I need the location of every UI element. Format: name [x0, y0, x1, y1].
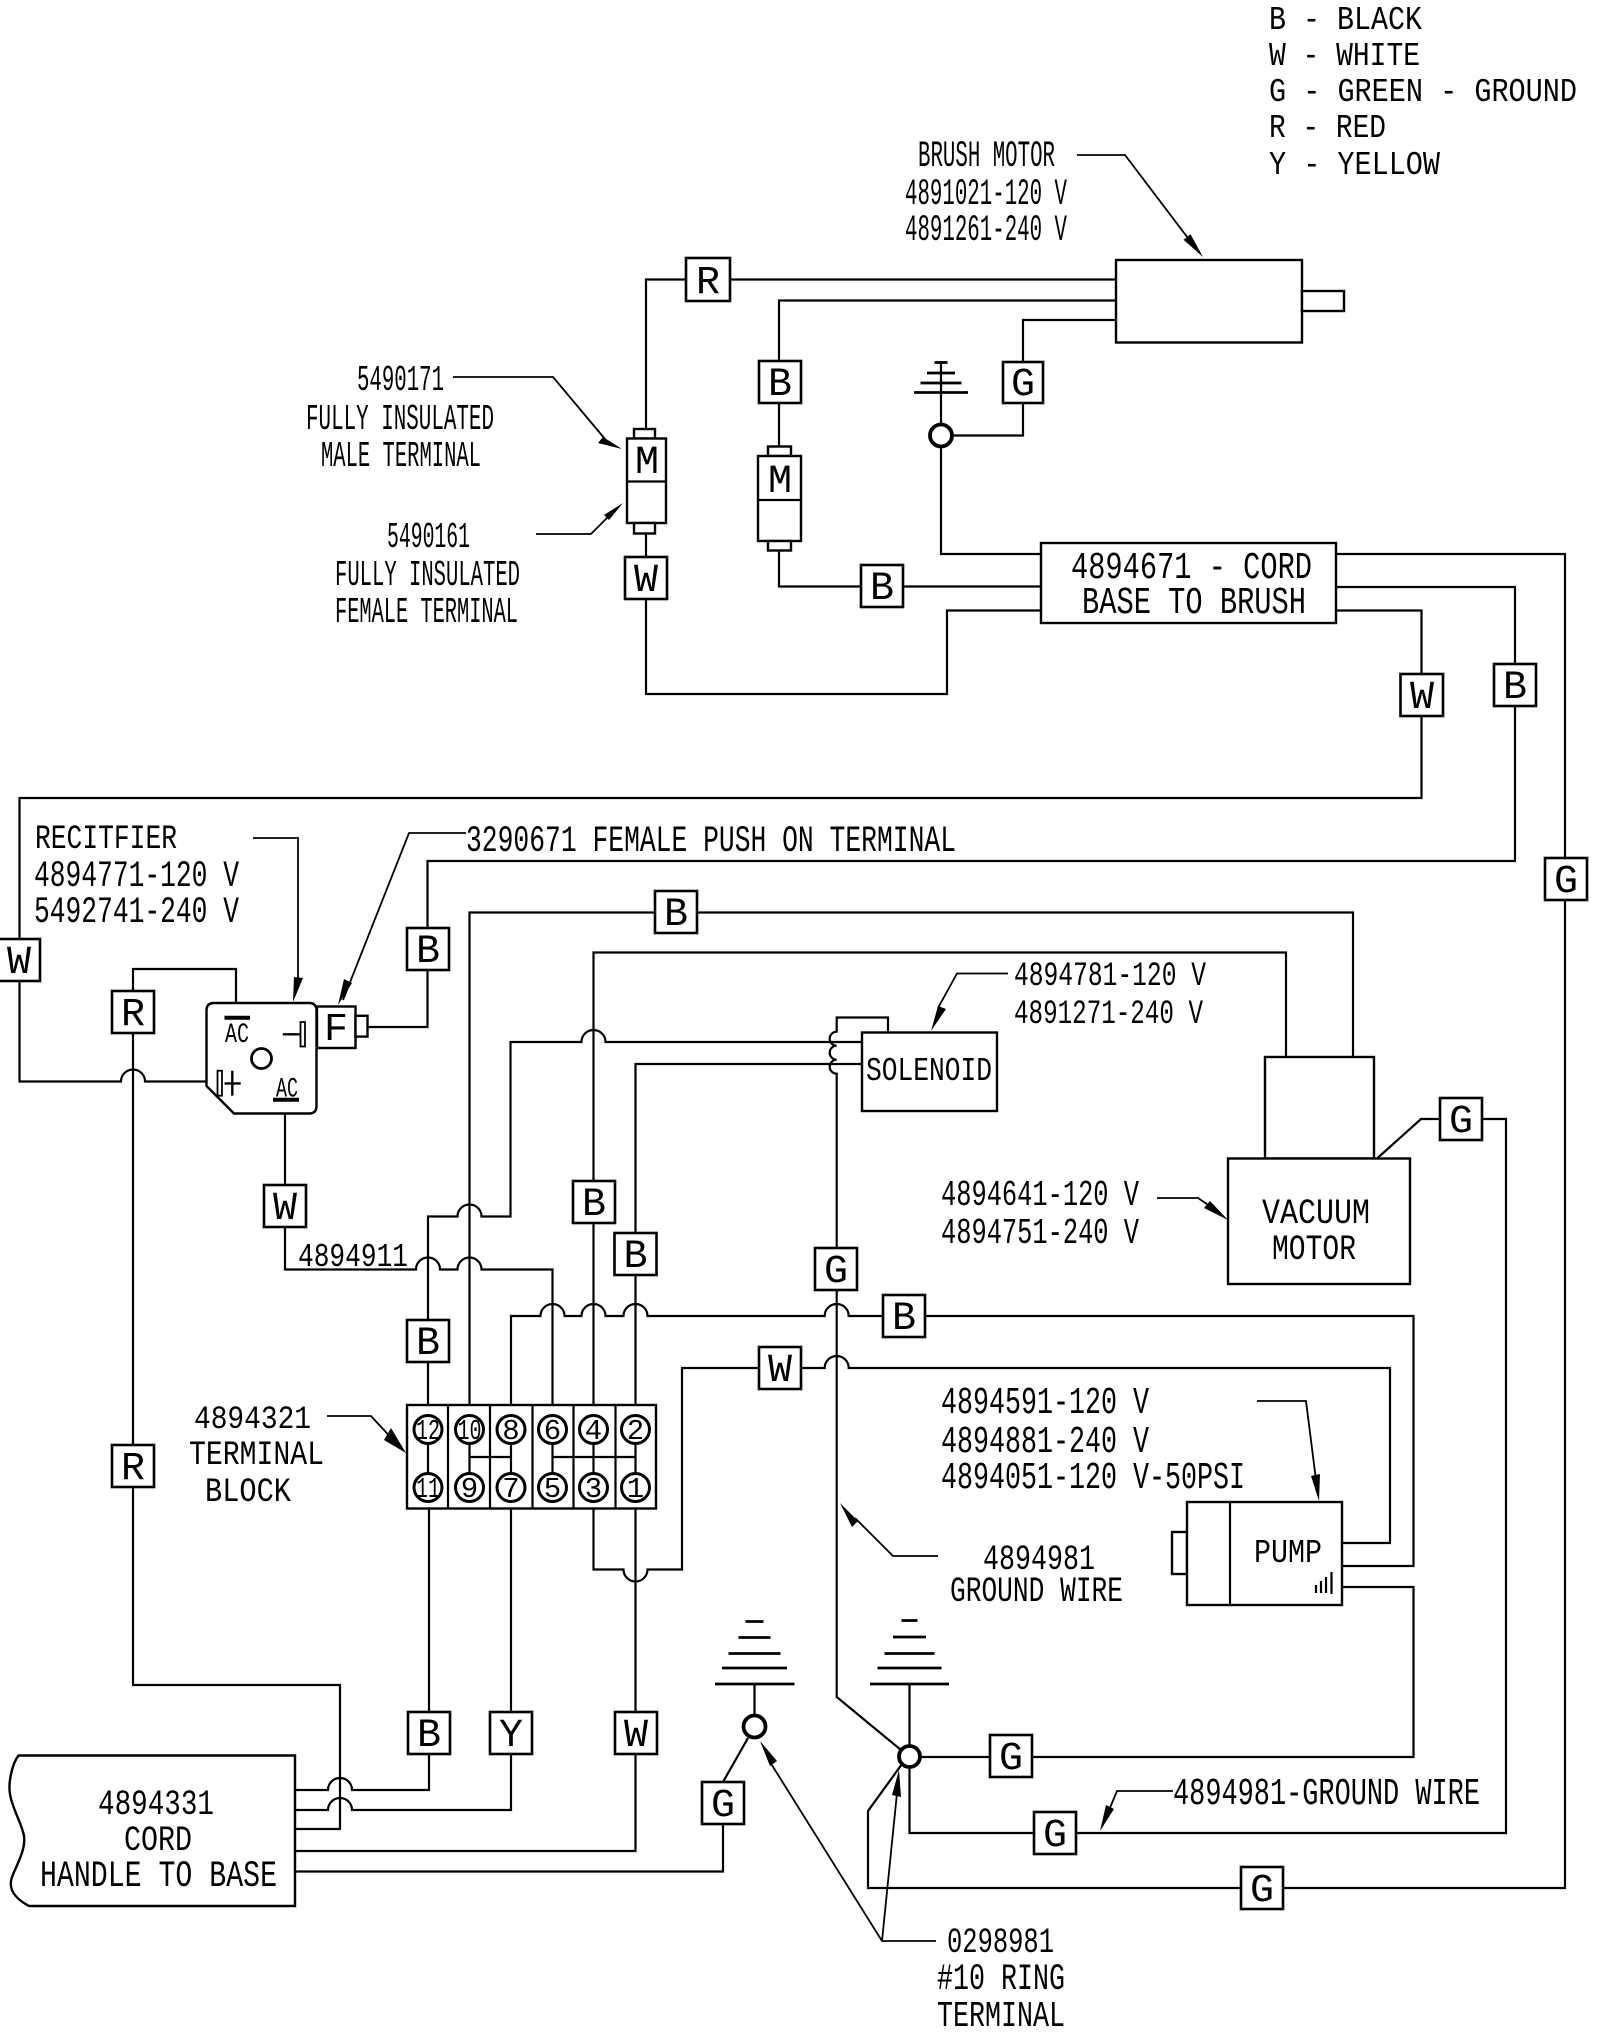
- handle cord box 4894331: [9, 1756, 295, 1907]
- wire B: terminal 10 up through B box to vacuum motor: [470, 913, 1354, 1417]
- label box B (right side): [1494, 664, 1536, 711]
- svg-text:R: R: [121, 993, 145, 1038]
- ring terminal A (0298981): [744, 1716, 766, 1738]
- label 5490161 fully insulated female terminal: [335, 517, 520, 633]
- svg-text:F: F: [324, 1008, 348, 1053]
- label box B (brush black): [759, 361, 801, 408]
- label box G (handle green): [702, 1782, 744, 1829]
- svg-text:4894911: 4894911: [298, 1239, 408, 1276]
- wire R: rectifier top jog: [133, 969, 236, 1003]
- wire B: black wire from middle M terminal up to brush motor: [779, 301, 1116, 447]
- wire B: handle cord to terminal 11: [296, 1754, 429, 1790]
- legend wire color key: [1269, 2, 1577, 184]
- leader to bottom ground wire: [1107, 1791, 1173, 1815]
- ring node (top ground circle): [930, 425, 952, 447]
- svg-text:M: M: [635, 441, 659, 486]
- label box B (on rectifier F chain): [407, 928, 449, 975]
- wire G: vacuum motor case to G box: [1377, 1119, 1440, 1159]
- svg-text:4894781-120 V: 4894781-120 V: [1014, 958, 1206, 996]
- wire: chassis ground stem above ring terminal B: [908, 1684, 910, 1746]
- leader to F terminal: [343, 833, 466, 1000]
- svg-text:W - WHITE: W - WHITE: [1269, 38, 1420, 75]
- leader to rectifier: [253, 838, 298, 978]
- svg-text:B: B: [768, 363, 792, 408]
- wire: left M terminal to W box: [645, 534, 647, 559]
- svg-text:TERMINAL: TERMINAL: [937, 1996, 1065, 2037]
- leaders to ring terminals: [770, 1762, 936, 1941]
- svg-text:2: 2: [627, 1415, 644, 1448]
- svg-text:W: W: [634, 559, 658, 604]
- wire R: red wire from male terminal to brush motor: [646, 280, 1116, 430]
- svg-text:1: 1: [627, 1473, 644, 1506]
- wire W: from W box down around to cord box left: [646, 599, 1041, 694]
- svg-text:4894751-240 V: 4894751-240 V: [941, 1213, 1139, 1254]
- svg-text:G: G: [1011, 363, 1035, 408]
- svg-text:5490171: 5490171: [357, 360, 444, 401]
- svg-text:RECITFIER: RECITFIER: [35, 821, 177, 859]
- svg-text:Y - YELLOW: Y - YELLOW: [1269, 147, 1440, 184]
- svg-text:W: W: [273, 1187, 297, 1232]
- label box Y (handle yellow): [490, 1712, 532, 1759]
- svg-text:W: W: [768, 1349, 792, 1394]
- label 5490171 fully insulated male terminal: [306, 360, 494, 477]
- svg-text:B: B: [870, 567, 894, 612]
- svg-text:4894321: 4894321: [194, 1401, 311, 1438]
- label box B (terminal 2 chain): [615, 1233, 657, 1280]
- wire: chassis ground stem above top ring circle: [940, 363, 942, 425]
- label BRUSH MOTOR with part numbers: [905, 136, 1067, 252]
- svg-text:B: B: [664, 893, 688, 938]
- ground symbol above ring terminal B: [870, 1621, 949, 1685]
- label pump part numbers: [941, 1382, 1245, 1500]
- svg-text:5492741-240 V: 5492741-240 V: [34, 892, 239, 934]
- svg-text:6: 6: [544, 1415, 561, 1448]
- svg-text:9: 9: [461, 1473, 478, 1506]
- leader to terminal block: [327, 1416, 395, 1442]
- solenoid box: [862, 1033, 997, 1112]
- svg-text:4: 4: [585, 1415, 602, 1448]
- svg-text:CORD: CORD: [124, 1821, 192, 1861]
- svg-text:W: W: [1410, 676, 1434, 721]
- svg-text:4894331: 4894331: [98, 1785, 214, 1825]
- svg-text:5490161: 5490161: [387, 517, 470, 558]
- wire G: cord box right to G box and down right edge to bottom ground line: [868, 554, 1565, 1888]
- label box B (terminal 12 chain): [407, 1320, 449, 1367]
- label box B (terminal 10 / vacuum chain): [655, 891, 697, 938]
- svg-text:0298981: 0298981: [947, 1923, 1054, 1963]
- ring terminal B (0298981): [899, 1746, 920, 1767]
- leader to male terminal: [453, 377, 605, 439]
- svg-text:GROUND WIRE: GROUND WIRE: [950, 1572, 1123, 1612]
- svg-text:B: B: [416, 930, 440, 975]
- svg-text:G: G: [1043, 1814, 1067, 1859]
- label box G (vacuum ground line): [1034, 1812, 1076, 1859]
- svg-text:W: W: [7, 941, 31, 986]
- svg-text:4894051-120 V-50PSI: 4894051-120 V-50PSI: [941, 1457, 1245, 1500]
- female push on terminal F box: [317, 1007, 368, 1054]
- svg-text:8: 8: [502, 1415, 519, 1448]
- ground symbol above ring terminal A: [715, 1622, 795, 1685]
- leader to solenoid ground wire: [855, 1518, 938, 1556]
- label 4894321 terminal block: [189, 1401, 324, 1512]
- svg-text:12: 12: [416, 1415, 440, 1448]
- wire R: lower R box down and into handle cord box: [133, 1487, 340, 1829]
- wire: rectifier bottom to W box: [284, 1114, 286, 1186]
- svg-text:B: B: [623, 1235, 647, 1280]
- label vacuum motor part numbers: [941, 1175, 1139, 1254]
- label box W (terminal 3 / pump chain): [759, 1347, 801, 1394]
- svg-text:B - BLACK: B - BLACK: [1269, 2, 1422, 39]
- svg-text:MALE TERMINAL: MALE TERMINAL: [321, 436, 481, 477]
- svg-text:W: W: [624, 1714, 648, 1759]
- svg-text:3: 3: [585, 1473, 602, 1506]
- label box W (handle white): [615, 1712, 657, 1759]
- wire: G box to ground ring circle: [952, 403, 1023, 436]
- svg-text:7: 7: [502, 1473, 519, 1506]
- label box G (pump ground line): [990, 1735, 1032, 1782]
- svg-text:SOLENOID: SOLENOID: [866, 1053, 992, 1090]
- cord box 4894671 BASE TO BRUSH: [1041, 543, 1336, 625]
- label solenoid part numbers: [1014, 958, 1206, 1034]
- svg-text:4894591-120 V: 4894591-120 V: [941, 1382, 1149, 1425]
- svg-text:B: B: [416, 1322, 440, 1367]
- wire W: handle cord to terminal 1: [296, 1754, 636, 1851]
- svg-text:G: G: [711, 1784, 735, 1829]
- wire B: terminal 2 to solenoid: [636, 1064, 863, 1416]
- svg-text:G: G: [1554, 860, 1578, 905]
- svg-text:4894641-120 V: 4894641-120 V: [941, 1175, 1139, 1216]
- label box G (right edge): [1545, 858, 1587, 905]
- svg-text:B: B: [892, 1297, 916, 1342]
- terminal M2 female terminal 5490161 (middle chain): [758, 447, 801, 551]
- svg-text:PUMP: PUMP: [1254, 1535, 1322, 1572]
- svg-text:R - RED: R - RED: [1269, 110, 1386, 147]
- rectifier 4894771 body: [207, 1003, 317, 1114]
- label 4894981 ground wire (solenoid): [950, 1540, 1123, 1612]
- terminal block 4894321: [407, 1405, 656, 1509]
- svg-text:M: M: [768, 460, 792, 505]
- wire G: pump ground lead to ring terminal B: [920, 1587, 1414, 1757]
- leader to vacuum motor: [1157, 1198, 1220, 1213]
- wire W: rectifier W box to terminal 6: [285, 1227, 553, 1416]
- svg-text:BLOCK: BLOCK: [205, 1474, 291, 1512]
- brush motor body: [1116, 260, 1344, 343]
- wire G: green wire from G box up to brush motor: [1023, 320, 1116, 362]
- svg-text:B: B: [1503, 666, 1527, 711]
- leader to brush motor: [1077, 155, 1197, 250]
- svg-text:G: G: [1250, 1869, 1274, 1914]
- wire B: middle M terminal down to cord box left: [779, 551, 1041, 587]
- wire G: ring terminal B to vacuum motor ground: [910, 1119, 1507, 1833]
- label box G (bottom ground line): [1241, 1867, 1283, 1914]
- svg-text:TERMINAL: TERMINAL: [189, 1437, 324, 1475]
- svg-text:FULLY INSULATED: FULLY INSULATED: [306, 399, 494, 440]
- wire W: cord box right, down left side to rectifier: [20, 611, 1422, 1082]
- svg-text:4891271-240 V: 4891271-240 V: [1014, 996, 1203, 1034]
- svg-text:4894981-GROUND WIRE: 4894981-GROUND WIRE: [1173, 1773, 1480, 1816]
- wire G: handle cord to G box and ring terminal A: [296, 1824, 723, 1872]
- svg-text:G - GREEN - GROUND: G - GREEN - GROUND: [1269, 74, 1577, 111]
- svg-text:R: R: [121, 1447, 145, 1492]
- label 0298981 #10 ring terminal: [937, 1923, 1065, 2037]
- svg-text:B: B: [417, 1714, 441, 1759]
- leader to solenoid: [938, 974, 1008, 1009]
- ground symbol (top, near brush motor): [914, 363, 968, 393]
- label box W (rectifier output): [264, 1185, 306, 1232]
- label box W (right side): [1401, 674, 1444, 721]
- svg-text:BRUSH MOTOR: BRUSH MOTOR: [918, 136, 1055, 178]
- svg-text:BASE TO BRUSH: BASE TO BRUSH: [1082, 582, 1306, 625]
- svg-text:3290671 FEMALE PUSH ON TERMINA: 3290671 FEMALE PUSH ON TERMINAL: [466, 821, 956, 863]
- svg-text:R: R: [696, 261, 720, 306]
- label box W (left M chain): [625, 557, 667, 604]
- label box G (vacuum ground): [1440, 1098, 1482, 1145]
- wire W: terminal 3 around through W box to pump white lead: [594, 1356, 1391, 1582]
- leader to pump: [1257, 1401, 1316, 1480]
- label box B (terminal 8 / pump chain): [883, 1295, 925, 1342]
- label box G (brush green): [1003, 362, 1043, 408]
- label box R (top wire): [686, 258, 730, 306]
- wire: ground ring circle down to cord box left: [941, 447, 1041, 554]
- wire G: solenoid coil and ground wire down to ring terminal B: [830, 1018, 901, 1751]
- terminal M1 male terminal 5490171: [627, 429, 666, 534]
- vacuum motor: [1228, 1057, 1410, 1284]
- svg-text:VACUUM: VACUUM: [1262, 1194, 1370, 1234]
- svg-text:B: B: [582, 1183, 606, 1228]
- svg-text:G: G: [824, 1250, 848, 1295]
- label box R (left, above rectifier): [112, 991, 154, 1038]
- wire: chassis ground stem above ring terminal A: [753, 1684, 755, 1716]
- svg-text:AC: AC: [225, 1020, 249, 1051]
- label box G (solenoid ground): [815, 1248, 857, 1295]
- label box B (handle black): [408, 1712, 450, 1759]
- svg-text:5: 5: [544, 1473, 561, 1506]
- svg-text:HANDLE TO BASE: HANDLE TO BASE: [40, 1856, 277, 1898]
- wire Y: handle cord to terminal 7: [296, 1754, 511, 1810]
- svg-text:4891261-240 V: 4891261-240 V: [905, 210, 1067, 252]
- wire R: R box down left side: [132, 1033, 134, 1445]
- leader to female terminal: [536, 510, 615, 534]
- label box B (base to brush black): [861, 565, 903, 612]
- svg-text:Y: Y: [499, 1714, 523, 1759]
- svg-text:10: 10: [458, 1415, 482, 1448]
- label RECITFIER with part numbers: [34, 821, 239, 934]
- svg-text:#10 RING: #10 RING: [937, 1959, 1065, 2001]
- label box R (lower left): [112, 1445, 154, 1492]
- label box W (far left edge): [0, 939, 40, 986]
- label box B (terminal 4 chain): [573, 1181, 615, 1228]
- wire B: terminal 4 through B box to vacuum motor: [592, 1224, 594, 1416]
- wire B: terminal 8 across to pump black lead: [511, 1304, 1414, 1566]
- pump: [1172, 1502, 1342, 1605]
- svg-text:G: G: [999, 1737, 1023, 1782]
- svg-text:11: 11: [416, 1473, 440, 1506]
- wire B: cord box right down to rectifier F terminal: [368, 587, 1516, 1027]
- svg-text:MOTOR: MOTOR: [1272, 1230, 1356, 1270]
- svg-text:FULLY INSULATED: FULLY INSULATED: [335, 555, 520, 596]
- wire B: terminal 12 through B box and jog to solenoid: [427, 1363, 429, 1416]
- svg-text:FEMALE TERMINAL: FEMALE TERMINAL: [335, 592, 518, 633]
- svg-text:G: G: [1449, 1100, 1473, 1145]
